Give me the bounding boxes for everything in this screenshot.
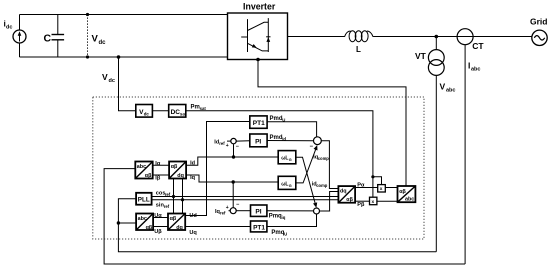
svg-text:dc: dc — [6, 25, 12, 31]
svg-text:Iq: Iq — [190, 175, 196, 181]
svg-text:PT1: PT1 — [253, 224, 265, 231]
svg-text:Uβ: Uβ — [154, 229, 162, 235]
svg-text:αβ: αβ — [171, 164, 178, 170]
svg-text:dc: dc — [99, 40, 107, 46]
svg-text:+: + — [226, 143, 229, 149]
svg-text:αβ: αβ — [145, 173, 152, 179]
svg-text:Ud: Ud — [189, 213, 197, 219]
svg-text:abc: abc — [446, 88, 455, 94]
svg-text:V: V — [92, 34, 99, 45]
svg-text:sat: sat — [180, 111, 187, 116]
svg-text:VT: VT — [415, 51, 427, 61]
svg-text:ref: ref — [219, 141, 225, 146]
svg-text:V: V — [102, 72, 108, 82]
svg-text:DC: DC — [171, 109, 181, 116]
svg-text:L: L — [356, 45, 361, 54]
svg-text:dq: dq — [177, 173, 184, 179]
svg-text:−: − — [236, 144, 239, 150]
svg-text:Pmq: Pmq — [269, 214, 282, 220]
svg-text:ref: ref — [220, 211, 226, 216]
svg-text:PI: PI — [255, 139, 261, 146]
svg-text:G: G — [289, 184, 292, 188]
svg-text:Iβ: Iβ — [155, 175, 161, 181]
svg-text:Pα: Pα — [357, 183, 365, 189]
svg-text:PLL: PLL — [138, 197, 150, 204]
svg-text:Inverter: Inverter — [243, 2, 276, 12]
svg-text:CT: CT — [472, 41, 484, 51]
svg-text:iq: iq — [282, 215, 286, 220]
svg-text:C: C — [44, 33, 52, 45]
svg-text:PI: PI — [255, 209, 261, 216]
svg-text:abc: abc — [405, 197, 414, 203]
svg-text:abc: abc — [138, 216, 147, 222]
svg-text:αβ: αβ — [170, 216, 177, 222]
svg-text:ωL: ωL — [281, 156, 288, 162]
svg-text:Uq: Uq — [189, 230, 197, 236]
svg-text:dc: dc — [144, 111, 150, 116]
svg-text:Iα: Iα — [155, 161, 161, 167]
svg-text:abc: abc — [137, 164, 146, 170]
svg-text:Pmd: Pmd — [270, 135, 283, 141]
svg-text:dc: dc — [109, 78, 115, 84]
svg-text:id: id — [282, 136, 286, 141]
svg-text:+: + — [226, 205, 229, 211]
svg-text:Pβ: Pβ — [357, 202, 365, 208]
svg-text:−: − — [310, 144, 314, 150]
svg-text:Grid: Grid — [530, 17, 547, 27]
svg-text:αβ: αβ — [146, 225, 153, 231]
svg-text:Id: Id — [190, 161, 196, 167]
svg-text:sat: sat — [200, 106, 207, 111]
svg-text:abc: abc — [471, 67, 480, 73]
svg-text:Pmq: Pmq — [271, 230, 284, 236]
svg-text:αβ: αβ — [399, 189, 406, 195]
svg-text:V: V — [440, 82, 446, 92]
svg-text:αβ: αβ — [346, 197, 353, 203]
svg-text:ωL: ωL — [281, 181, 288, 187]
svg-text:x: x — [372, 200, 375, 205]
svg-text:ref: ref — [165, 192, 171, 197]
svg-text:comp: comp — [316, 183, 328, 188]
svg-text:comp: comp — [318, 156, 330, 161]
svg-text:dq: dq — [340, 189, 347, 195]
svg-text:Uα: Uα — [154, 213, 162, 219]
svg-text:U: U — [282, 117, 285, 122]
svg-text:G: G — [289, 158, 292, 162]
svg-text:PT1: PT1 — [253, 120, 265, 127]
svg-text:−: − — [236, 202, 239, 208]
svg-text:x: x — [380, 187, 383, 192]
svg-text:dq: dq — [176, 225, 183, 231]
svg-text:Pm: Pm — [191, 105, 200, 111]
svg-text:ref: ref — [164, 204, 170, 209]
svg-text:Pmd: Pmd — [270, 116, 283, 122]
svg-text:U: U — [284, 231, 287, 236]
